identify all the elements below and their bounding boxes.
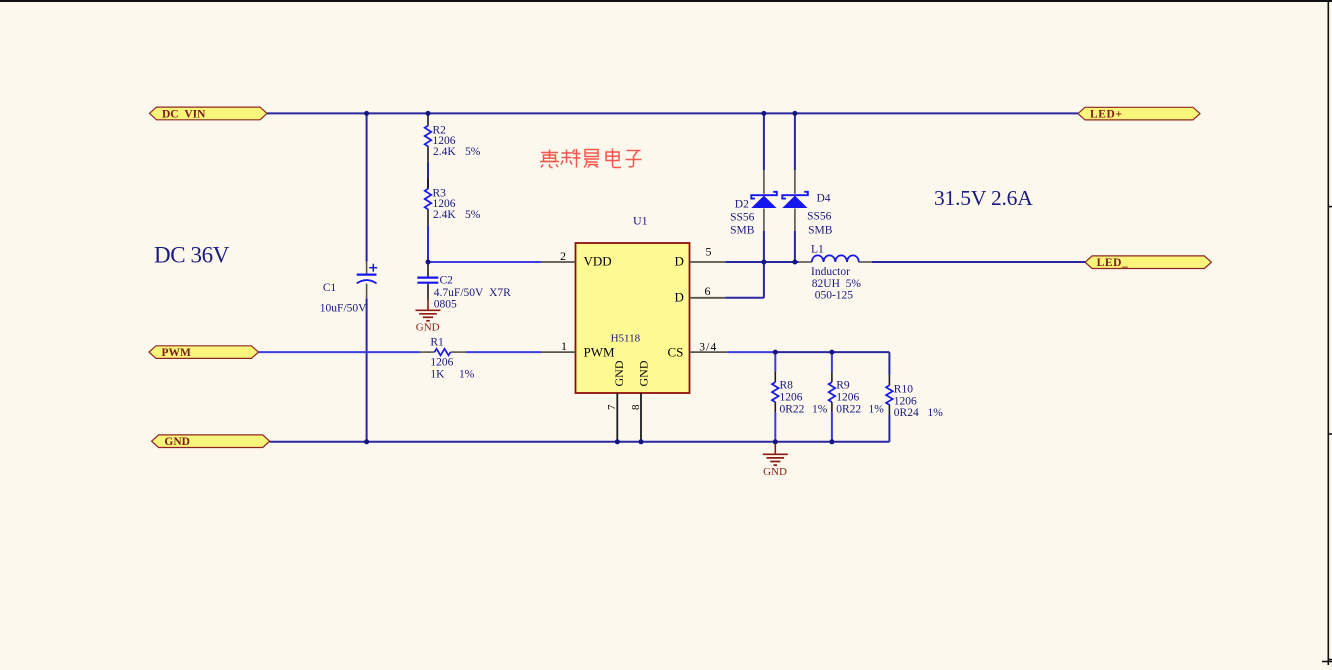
svg-text:SS56: SS56	[807, 211, 832, 223]
wire C1 branch vertical	[366, 113, 368, 441]
glyph xin	[561, 149, 581, 168]
svg-text:1206: 1206	[780, 392, 803, 404]
resistor R8	[772, 372, 828, 416]
resistor R2	[425, 113, 481, 162]
svg-text:31.5V 2.6A: 31.5V 2.6A	[934, 186, 1033, 210]
svg-text:PWM: PWM	[584, 345, 616, 360]
svg-text:R1: R1	[430, 337, 444, 349]
watermark 惠新晨电子 (drawn strokes)	[540, 149, 642, 169]
wire D pin5 net	[725, 261, 1085, 263]
svg-text:0R22: 0R22	[780, 403, 805, 415]
svg-text:SMB: SMB	[730, 225, 755, 237]
svg-text:R9: R9	[836, 379, 850, 391]
svg-text:C1: C1	[323, 282, 337, 294]
svg-text:1%: 1%	[928, 407, 944, 419]
svg-text:H5118: H5118	[611, 333, 641, 345]
pin 1 stub	[541, 351, 576, 353]
junction node gnd pin8	[639, 439, 644, 444]
pin 2 stub	[541, 261, 576, 263]
svg-text:GND: GND	[164, 436, 190, 448]
junction node top D4	[792, 111, 797, 116]
svg-text:8: 8	[630, 404, 642, 410]
junction node top C1	[364, 111, 369, 116]
svg-text:6: 6	[705, 284, 711, 298]
svg-text:LED_: LED_	[1097, 257, 1129, 269]
junction node gnd pin7	[615, 439, 620, 444]
junction node top R2	[426, 111, 431, 116]
wire top rail DC_VIN to LED+	[267, 112, 1078, 114]
svg-text:82UH 5%: 82UH 5%	[812, 278, 862, 290]
glyph dian	[606, 149, 621, 168]
svg-text:2: 2	[560, 249, 566, 263]
port LED+	[1078, 107, 1200, 120]
svg-text:0R22: 0R22	[836, 403, 861, 415]
svg-text:0805: 0805	[434, 298, 457, 310]
svg-text:2.4K: 2.4K	[433, 146, 456, 158]
sheet border right	[1322, 0, 1332, 665]
port PWM	[149, 346, 258, 359]
svg-text:1%: 1%	[459, 369, 475, 381]
diode D2	[730, 170, 777, 237]
port LED_	[1085, 256, 1211, 269]
junction node gnd C1	[364, 439, 369, 444]
svg-text:R10: R10	[894, 383, 913, 395]
junction node top D2	[761, 111, 766, 116]
svg-text:SS56: SS56	[730, 212, 755, 224]
svg-text:1: 1	[561, 339, 567, 353]
resistor R3	[425, 178, 481, 225]
wire D2 branch vertical	[763, 113, 765, 262]
wire D4 branch vertical	[794, 113, 796, 262]
pin 5 stub	[690, 261, 726, 263]
ground GND (sense)	[763, 442, 788, 478]
svg-text:7: 7	[606, 404, 618, 410]
pin 6 stub	[690, 297, 726, 299]
svg-text:GND: GND	[416, 322, 440, 334]
svg-text:SMB: SMB	[808, 224, 833, 236]
port GND	[152, 435, 270, 448]
pin 3/4 stub	[690, 351, 728, 353]
wire R2 R3 branch vertical	[427, 162, 429, 262]
junction node VDD C2	[426, 260, 431, 265]
svg-text:4.7uF/50V X7R: 4.7uF/50V X7R	[434, 287, 511, 299]
junction node D4 out	[792, 260, 797, 265]
svg-text:1K: 1K	[430, 369, 445, 381]
capacitor C2	[417, 262, 511, 310]
svg-text:1206: 1206	[836, 392, 859, 404]
svg-text:D2: D2	[735, 199, 749, 211]
wire PWM net	[258, 351, 541, 353]
IC U1	[541, 214, 727, 442]
svg-text:1206: 1206	[430, 356, 453, 368]
svg-text:5%: 5%	[465, 146, 481, 158]
junction node gnd R9	[829, 439, 834, 444]
svg-text:1%: 1%	[869, 403, 885, 415]
resistor R9	[829, 372, 885, 416]
svg-text:L1: L1	[811, 244, 824, 256]
svg-text:GND: GND	[763, 466, 787, 478]
svg-text:050-125: 050-125	[815, 290, 854, 302]
svg-text:1%: 1%	[812, 403, 828, 415]
svg-text:VDD: VDD	[584, 254, 612, 269]
wire CS sense net	[727, 352, 832, 442]
wire bottom GND rail	[270, 441, 890, 443]
junction node CS R9	[829, 350, 834, 355]
sheet border top	[0, 0, 1332, 2]
svg-text:D: D	[675, 290, 684, 305]
resistor R1	[420, 337, 475, 381]
resistor R10	[886, 375, 943, 419]
svg-text:C2: C2	[440, 275, 454, 287]
svg-text:GND: GND	[636, 360, 650, 386]
junction node CS R8	[773, 350, 778, 355]
svg-text:DC 36V: DC 36V	[154, 242, 230, 267]
capacitor C1	[320, 262, 378, 315]
svg-text:D: D	[675, 254, 684, 269]
svg-text:DC VIN: DC VIN	[162, 108, 206, 120]
svg-text:1206: 1206	[894, 395, 917, 407]
port DC_VIN	[150, 107, 268, 120]
svg-text:GND: GND	[612, 360, 626, 386]
pin 7 stub	[616, 393, 618, 442]
ground GND (C2)	[416, 300, 441, 334]
glyph hui	[540, 150, 559, 169]
inductor L1	[799, 244, 873, 302]
svg-text:3/4: 3/4	[699, 342, 717, 354]
junction node D2 out	[761, 260, 766, 265]
diode D4	[782, 170, 832, 236]
svg-text:2.4K: 2.4K	[433, 209, 456, 221]
wire VDD net	[428, 261, 541, 263]
svg-text:PWM: PWM	[162, 347, 192, 359]
svg-text:10uF/50V: 10uF/50V	[320, 303, 367, 315]
junction node gnd R8	[773, 439, 778, 444]
svg-text:5: 5	[706, 245, 712, 259]
glyph zi	[626, 151, 642, 168]
svg-text:5%: 5%	[465, 209, 481, 221]
svg-text:Inductor: Inductor	[811, 266, 850, 278]
svg-text:U1: U1	[633, 214, 648, 228]
pin 8 stub	[640, 393, 642, 442]
svg-text:D4: D4	[817, 193, 831, 205]
svg-text:CS: CS	[668, 345, 684, 360]
svg-text:R8: R8	[780, 379, 794, 391]
glyph chen	[584, 150, 599, 168]
svg-text:LED+: LED+	[1090, 109, 1123, 121]
wire D pin6 net	[725, 262, 764, 298]
svg-text:0R24: 0R24	[894, 407, 919, 419]
